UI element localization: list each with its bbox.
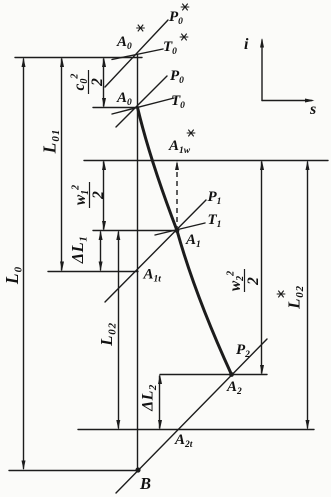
node A1 level line	[93, 230, 178, 232]
node B dot	[135, 467, 140, 472]
arrowhead dashed line top	[175, 161, 179, 170]
isobar P2	[116, 339, 267, 493]
node A1 dot	[175, 228, 180, 233]
label w2^2/2 fraction rotated	[226, 269, 263, 292]
svg-text:2: 2	[89, 78, 106, 87]
node A2t level line	[78, 429, 314, 431]
node A2 dot	[229, 372, 234, 377]
node A0* level line	[15, 57, 142, 59]
svg-text:s: s	[309, 101, 316, 118]
node A1w* level line	[84, 160, 328, 162]
arrowheads w2^2/2	[260, 161, 264, 171]
arrowheads L0	[22, 58, 26, 68]
isobar P0*	[105, 20, 168, 87]
svg-text:2: 2	[245, 277, 262, 286]
arrowheads dL1	[99, 231, 103, 241]
wire dimension L01	[61, 59, 63, 270]
arrowheads L02	[116, 231, 120, 241]
wire dimension c0^2/2	[103, 59, 105, 106]
node B level line	[9, 470, 138, 472]
axis i	[261, 40, 263, 101]
node A2 level line	[160, 374, 267, 376]
process line A0-A1 bold	[138, 108, 178, 231]
svg-text:B: B	[139, 474, 151, 493]
wire dimension L0	[23, 59, 25, 469]
label w1^2/2 fraction rotated	[71, 182, 108, 208]
svg-text:i: i	[244, 36, 249, 53]
arrowhead axis i	[260, 38, 264, 48]
wire dimension L02*	[307, 162, 309, 428]
arrowheads c0^2/2	[102, 58, 106, 68]
process line A1-A2 bold	[177, 231, 232, 375]
wire dimension w2^2/2	[261, 162, 263, 373]
wire isentrope A0*-B vertical	[137, 55, 139, 470]
wire dashed A1w*-A1	[176, 163, 178, 230]
arrowheads w1^2/2	[102, 161, 106, 171]
arrowhead axis s	[305, 99, 315, 103]
arrowheads L01	[60, 58, 64, 68]
isobar P0	[116, 76, 167, 127]
wire dimension dL2	[159, 376, 161, 428]
node A1t level line	[48, 271, 138, 273]
isotherm T0	[112, 98, 174, 114]
isotherm T0*	[112, 49, 163, 60]
label c0^2/2 fraction rotated	[70, 70, 107, 94]
wire dimension L02	[118, 232, 120, 428]
wire dimension w1^2/2	[103, 162, 105, 229]
svg-text:2: 2	[90, 191, 107, 200]
arrowheads L02*	[306, 161, 310, 171]
isobar P1	[105, 200, 206, 302]
axis s	[262, 100, 312, 102]
wire dimension dL1	[100, 232, 102, 270]
arrowheads dL2	[158, 375, 162, 385]
isotherm T1	[155, 223, 205, 235]
node A0 level line	[93, 107, 138, 109]
